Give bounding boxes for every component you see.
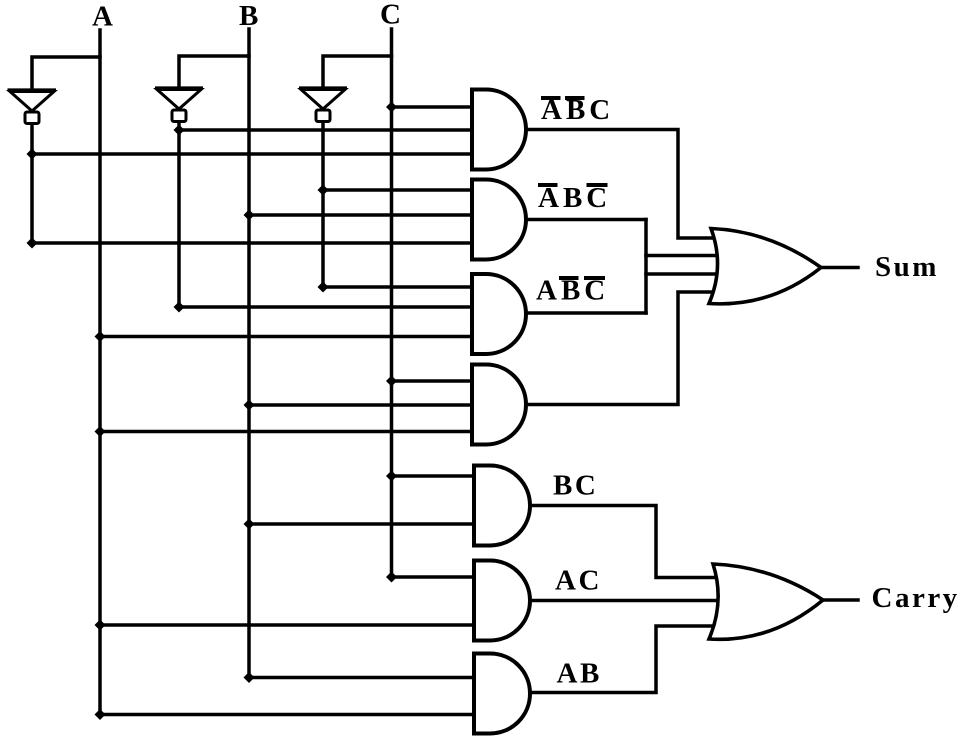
node B to U5 junction bbox=[244, 210, 255, 221]
wire AND U6 output to rail bbox=[525, 311, 646, 315]
AND gate U7 (ABC) bbox=[472, 365, 526, 445]
node A to U6 junction bbox=[95, 331, 106, 342]
node Cbar to U6 junction bbox=[318, 282, 329, 293]
wire A to AND U9 pin 2 bbox=[100, 623, 476, 627]
node C to U9 junction bbox=[386, 572, 397, 583]
svg-text:BC: BC bbox=[553, 470, 598, 502]
node A to U9 junction bbox=[95, 620, 106, 631]
node B to U8 junction bbox=[244, 519, 255, 530]
wire C to AND U4 pin 1 bbox=[392, 105, 474, 109]
wire AND U9 output to OR U12 input 2 bbox=[529, 599, 716, 603]
AND gate U10 (AB) bbox=[474, 654, 530, 734]
wire AND U5 output to rail bbox=[525, 218, 646, 222]
wire rail stub to OR U11 input 2 bbox=[646, 254, 716, 258]
wire A to AND U10 pin 2 bbox=[100, 713, 476, 717]
node B to U10 junction bbox=[244, 672, 255, 683]
wire OR U12 output Carry bbox=[822, 598, 858, 602]
svg-text:Sum: Sum bbox=[875, 251, 939, 283]
wire Abar vertical bbox=[30, 122, 34, 243]
svg-text:AB: AB bbox=[557, 658, 602, 690]
wire input A vertical bbox=[98, 30, 102, 715]
wire Abar to AND U4 pin 3 bbox=[32, 152, 473, 156]
wire Bbar to AND U4 pin 2 bbox=[179, 128, 473, 132]
wire A to AND U6 pin 3 bbox=[100, 335, 473, 339]
wire input B vertical bbox=[247, 29, 251, 678]
wire A to inverter U1 branch bbox=[32, 57, 100, 91]
wire AND U10 output to OR U12 input 3 bbox=[529, 626, 716, 693]
input label A bbox=[92, 1, 115, 33]
wire Abar to AND U5 pin 3 bbox=[32, 241, 473, 245]
wire rail vertical between U5 and U6 outputs bbox=[644, 220, 648, 314]
node A to U10 junction bbox=[95, 709, 106, 720]
inverter U2 (NOT B) bbox=[155, 88, 203, 122]
AND gate U4 (AbarBbarC) bbox=[472, 90, 526, 170]
OR gate U11 (Sum) bbox=[709, 229, 821, 304]
wire AND U4 output to OR U11 input 1 bbox=[525, 130, 714, 239]
wire B to AND U8 pin 2 bbox=[249, 522, 476, 526]
inverter U3 (NOT C) bbox=[299, 88, 347, 122]
node C to U4 junction bbox=[386, 102, 397, 113]
wire Bbar to AND U6 pin 2 bbox=[179, 305, 473, 309]
svg-text:Carry: Carry bbox=[872, 582, 960, 614]
wire B to AND U10 pin 1 bbox=[249, 676, 476, 680]
wire AND U8 output to OR U12 input 1 bbox=[529, 506, 716, 578]
node Bbar to U6 junction bbox=[174, 302, 185, 313]
node B to U7 junction bbox=[244, 400, 255, 411]
wire B to AND U5 pin 2 bbox=[249, 213, 473, 217]
label Sum output bbox=[875, 251, 939, 283]
label AC at U9 output bbox=[555, 565, 602, 597]
svg-text:C: C bbox=[380, 0, 403, 31]
node C to U7 junction bbox=[386, 376, 397, 387]
wire C to AND U8 pin 1 bbox=[392, 474, 477, 478]
wire AND U7 output to OR U11 input 4 bbox=[525, 292, 714, 405]
label AB at U10 output bbox=[557, 658, 602, 690]
wire Cbar vertical bbox=[321, 121, 325, 287]
label Carry output bbox=[872, 582, 960, 614]
wire input C vertical bbox=[390, 29, 394, 577]
svg-text:B: B bbox=[239, 0, 261, 32]
node Abar to U5 junction bbox=[27, 238, 38, 249]
svg-text:AC: AC bbox=[555, 565, 602, 597]
AND gate U5 (AbarBCbar) bbox=[472, 180, 526, 260]
wire Cbar to AND U5 pin 1 bbox=[323, 188, 473, 192]
input label B bbox=[239, 0, 261, 32]
label ABbarCbar at U6 output bbox=[536, 275, 609, 307]
wire A to AND U7 pin 3 bbox=[100, 430, 473, 434]
wire rail stub to OR U11 input 3 bbox=[646, 272, 716, 276]
AND gate U6 (ABbarCbar) bbox=[472, 274, 526, 354]
wire B to AND U7 pin 2 bbox=[249, 403, 473, 407]
wire OR U11 output Sum bbox=[820, 266, 858, 270]
wire C to AND U7 pin 1 bbox=[392, 379, 474, 383]
wire B to inverter U2 branch bbox=[179, 56, 249, 89]
node Bbar to U4 junction bbox=[174, 125, 185, 136]
input label C bbox=[380, 0, 403, 31]
AND gate U8 (BC) bbox=[474, 466, 530, 546]
node Cbar to U5 junction bbox=[318, 185, 329, 196]
node Abar to U4 junction bbox=[27, 149, 38, 160]
label AbarBbarC at U4 output bbox=[541, 94, 614, 126]
wire Bbar vertical bbox=[177, 121, 181, 307]
label AbarBCbar at U5 output bbox=[538, 182, 611, 214]
node C to U8 junction bbox=[386, 471, 397, 482]
wire Cbar to AND U6 pin 1 bbox=[323, 285, 473, 289]
wire C to inverter U3 branch bbox=[323, 56, 392, 89]
OR gate U12 (Carry) bbox=[709, 564, 823, 639]
node A to U7 junction bbox=[95, 426, 106, 437]
label BC at U8 output bbox=[553, 470, 598, 502]
svg-text:A: A bbox=[92, 1, 115, 33]
AND gate U9 (AC) bbox=[474, 561, 530, 641]
inverter U1 (NOT A) bbox=[8, 90, 57, 124]
wire C to AND U9 pin 1 bbox=[392, 575, 477, 579]
